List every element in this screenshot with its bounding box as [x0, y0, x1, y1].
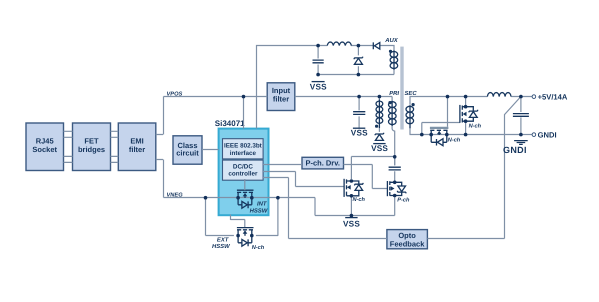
- transistor INT HSSW inside chip: [237, 179, 268, 215]
- node nch drain: [350, 179, 354, 183]
- wire clamp node to N-ch drain: [351, 157, 394, 180]
- block IEEE 802.3bt interface: [223, 139, 264, 159]
- svg-text:VSS: VSS: [371, 144, 388, 153]
- winding primary: [389, 101, 397, 126]
- svg-text:P-ch: P-ch: [397, 196, 410, 203]
- node ext fet left: [236, 234, 240, 238]
- wire VPOS rail to transformer primary: [295, 96, 392, 98]
- svg-text:bridges: bridges: [78, 145, 105, 154]
- wire AUX winding bottom return rail: [318, 65, 394, 75]
- wire sync FET gate tap from output rail: [447, 97, 449, 127]
- node VPOS-chip junction: [242, 95, 246, 99]
- wire Si34071 pin B to N-ch gate: [263, 172, 344, 187]
- wire clamp cap to P-ch drain: [394, 157, 396, 182]
- svg-text:INT: INT: [257, 201, 268, 208]
- node gndi fet right: [445, 133, 449, 137]
- wire P-ch driver output to P-ch gate: [344, 165, 388, 189]
- wire VPOS junction down to Si34071 pin: [243, 97, 245, 129]
- wire VPOS cap2 lead to VSS: [358, 97, 360, 129]
- wire output inductor to +5V terminal: [511, 96, 532, 98]
- node vpos clamp tap junction: [378, 95, 382, 99]
- wire GNDI rail to GNDI terminal: [521, 134, 532, 136]
- wire primary winding top lead: [391, 97, 393, 102]
- wire Si34071 VDD pin up to aux rail: [257, 46, 319, 129]
- phase dot primary: [388, 101, 391, 104]
- svg-text:Si34071: Si34071: [215, 119, 245, 128]
- IC U1 Si34071: [215, 119, 269, 215]
- transistor Q2 P-ch clamp: [387, 181, 410, 203]
- phase dot clamp winding: [375, 125, 378, 128]
- node aux return cap junction: [316, 73, 320, 77]
- transistor EXT HSSW: [212, 228, 265, 251]
- transistor Q4 freewheel N-ch vertical: [460, 105, 482, 129]
- wire Si34071 pin C to opto feedback: [263, 178, 387, 239]
- node int source branch: [276, 196, 280, 200]
- svg-text:+5V/14A: +5V/14A: [538, 93, 568, 102]
- svg-text:N-ch: N-ch: [448, 137, 461, 144]
- block FET bridges: [73, 123, 111, 171]
- node output junction: [519, 95, 523, 99]
- terminal GNDI: [532, 131, 556, 140]
- svg-text:VNEG: VNEG: [167, 192, 184, 198]
- svg-text:circuit: circuit: [176, 149, 199, 158]
- wire VPOS tap to clamp winding: [378, 97, 380, 132]
- node pch source: [393, 194, 397, 198]
- node gndi cap junction: [519, 133, 523, 137]
- transistor Q1 N-ch clamp: [344, 179, 365, 203]
- svg-text:N-ch: N-ch: [252, 244, 265, 251]
- svg-text:VPOS: VPOS: [167, 92, 183, 98]
- wire aux rail inductor to diode: [318, 45, 373, 47]
- wire pair RJ45 to FET bridges: [64, 131, 73, 162]
- wire primary bottom to clamp node: [392, 126, 395, 166]
- svg-text:Feedback: Feedback: [390, 240, 425, 249]
- block P-ch driver: [302, 157, 344, 169]
- svg-text:SEC: SEC: [405, 90, 418, 97]
- wire pair FET bridges to EMI filter: [111, 131, 119, 162]
- wire Class circuit to Si34071: [202, 149, 219, 151]
- wire VNEG into Si34071 INT HSSW rail: [219, 198, 395, 216]
- wire secondary top to output rail: [410, 97, 487, 105]
- svg-text:EXT: EXT: [217, 236, 230, 243]
- ground VSS input cap: [351, 128, 368, 138]
- svg-text:N-ch: N-ch: [469, 122, 482, 129]
- node gndi freewheel source: [464, 133, 468, 137]
- inductor L2 output: [487, 93, 511, 97]
- node gndi fet left: [429, 133, 433, 137]
- svg-text:controller: controller: [228, 170, 258, 177]
- node aux rail cap junction: [316, 44, 320, 48]
- wire P-ch source to VSS rail: [394, 196, 396, 216]
- svg-text:HSSW: HSSW: [212, 243, 230, 250]
- block RJ45 Socket: [26, 123, 64, 171]
- zener D2 aux shunt: [354, 57, 362, 65]
- winding AUX: [390, 50, 398, 70]
- transistor Q3 forward sync N-ch horizontal: [430, 128, 461, 146]
- wire VNEG branch down to EXT HSSW rail: [206, 198, 279, 236]
- ground VSS aux cap: [310, 82, 327, 92]
- node nch source: [350, 194, 354, 198]
- node int fet right: [250, 196, 254, 200]
- node vpos cap2 junction: [357, 95, 361, 99]
- svg-text:N-ch: N-ch: [353, 196, 366, 203]
- node aux return diode junction: [357, 73, 361, 77]
- node int fet left: [236, 196, 240, 200]
- block EMI filter: [118, 123, 156, 171]
- svg-text:VSS: VSS: [343, 219, 360, 228]
- wire EXT HSSW gate feed from chip: [231, 215, 245, 228]
- node sec rail fet drain: [464, 95, 468, 99]
- block Class circuit: [173, 136, 202, 164]
- node freewheel source: [464, 119, 468, 123]
- wire EMI filter to VNEG rail: [156, 160, 219, 198]
- wire opto feedback to output riser: [427, 238, 504, 240]
- zener D3 clamp: [375, 133, 383, 141]
- svg-text:GNDI: GNDI: [503, 145, 527, 155]
- winding secondary: [406, 105, 414, 128]
- wire aux cap top lead: [318, 46, 358, 59]
- wire secondary bottom to GNDI rail: [410, 128, 521, 135]
- wire freewheel FET drain and source leads: [465, 97, 467, 135]
- wire output cap leads: [520, 97, 522, 135]
- wire forward FET gate tap from GNDI rail: [422, 123, 460, 135]
- svg-text:P-ch. Drv.: P-ch. Drv.: [305, 159, 339, 168]
- svg-text:HSSW: HSSW: [250, 208, 268, 215]
- svg-text:filter: filter: [129, 145, 145, 154]
- capacitor C3 clamp: [389, 167, 401, 170]
- block DC/DC controller: [223, 160, 264, 180]
- inductor L1 aux filter: [327, 42, 351, 45]
- terminal +5V output: [532, 93, 568, 102]
- svg-text:Socket: Socket: [32, 145, 57, 154]
- diode D1 aux series: [373, 42, 380, 49]
- wire feedback diagonal from output node: [505, 97, 521, 239]
- svg-text:AUX: AUX: [384, 37, 399, 44]
- svg-text:interface: interface: [230, 150, 257, 157]
- block Input filter: [267, 83, 295, 111]
- BOXES: [26, 83, 427, 249]
- node VNEG-ext junction: [204, 196, 208, 200]
- ground VSS clamp zener: [371, 144, 388, 154]
- wire Si34071 pin A to P-ch driver: [263, 164, 302, 166]
- svg-text:filter: filter: [273, 94, 289, 103]
- wire EMI filter to VPOS rail: [156, 97, 267, 135]
- block Opto Feedback: [387, 230, 428, 249]
- winding clamp tap: [376, 100, 383, 129]
- svg-text:VSS: VSS: [351, 129, 368, 138]
- svg-text:PRI: PRI: [389, 90, 399, 97]
- phase dot AUX winding: [389, 50, 392, 53]
- transformer core: [400, 47, 403, 130]
- wire aux diode to AUX winding: [380, 46, 394, 51]
- ground GNDI symbol: [503, 141, 528, 155]
- wire INT source branch down to EXT rail: [277, 198, 279, 236]
- capacitor C1 aux: [313, 60, 324, 63]
- capacitor C4 output: [513, 114, 529, 117]
- node pch drain: [393, 181, 397, 185]
- node ext fet right: [250, 234, 254, 238]
- node clamp junction: [393, 155, 397, 159]
- phase dot secondary: [412, 103, 415, 106]
- svg-text:GNDI: GNDI: [538, 131, 557, 140]
- node vss rail junction: [350, 214, 354, 218]
- node freewheel drain: [464, 105, 468, 109]
- node sec rail gate tap: [446, 95, 450, 99]
- svg-text:IEEE 802.3bt: IEEE 802.3bt: [224, 143, 263, 150]
- capacitor C2 input: [353, 112, 365, 115]
- node aux rail diode junction: [357, 44, 361, 48]
- wire N-ch source to VSS rail: [350, 196, 352, 216]
- ground VSS clamp rail: [343, 218, 360, 229]
- svg-text:VSS: VSS: [310, 83, 327, 92]
- node gndi gate tap: [420, 133, 424, 137]
